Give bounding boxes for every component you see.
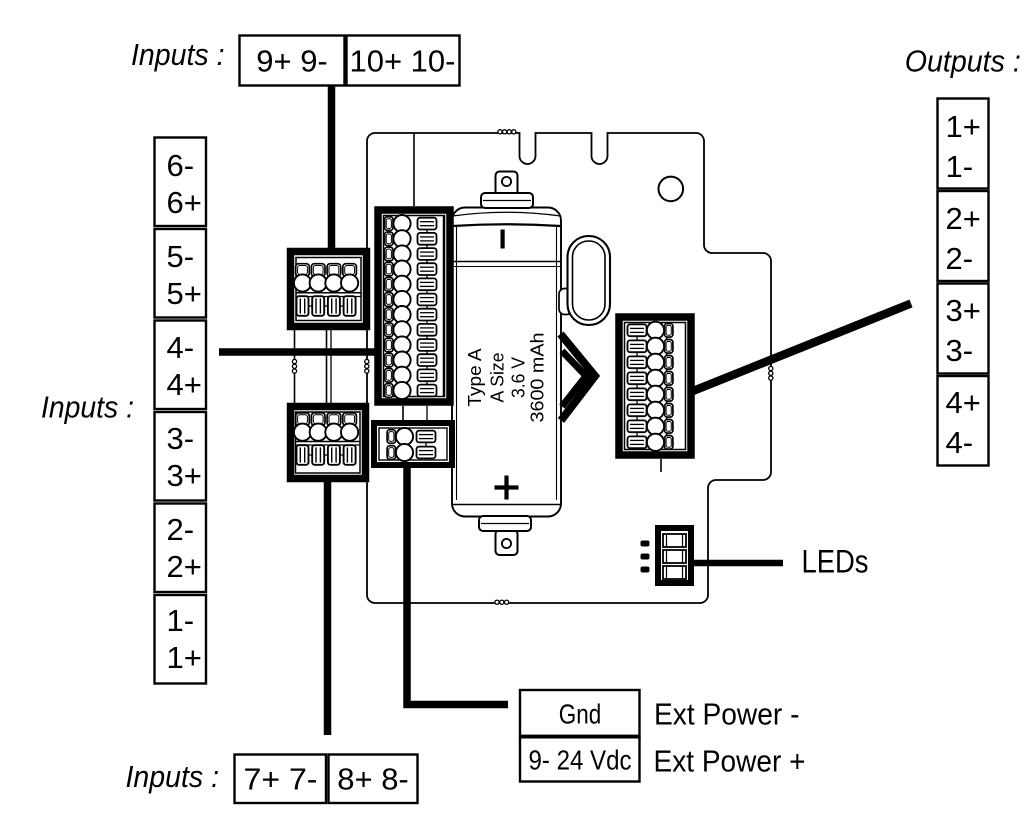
- battery top button: [481, 193, 533, 208]
- battery label text: [465, 333, 547, 423]
- svg-text:6-: 6-: [167, 148, 195, 183]
- svg-text:9- 24 Vdc: 9- 24 Vdc: [529, 745, 632, 776]
- terminal block TB4 right (outputs): [619, 317, 691, 455]
- contacts: [302, 454, 350, 456]
- battery minus mark: [501, 230, 505, 249]
- battery bottom tab: [496, 530, 518, 555]
- board edge break marks left: [365, 359, 369, 373]
- PCB board outline: [367, 133, 771, 603]
- svg-text:Inputs :: Inputs :: [41, 390, 134, 425]
- svg-text:10+ 10-: 10+ 10-: [349, 44, 455, 79]
- screws: [294, 413, 311, 441]
- svg-text:1+: 1+: [167, 640, 202, 675]
- svg-text:Ext Power -: Ext Power -: [654, 697, 800, 732]
- node box: 10+ 10-: [347, 36, 460, 86]
- stub below right terminal block: [660, 459, 662, 472]
- wire: small power block to Gnd box: [407, 464, 508, 705]
- svg-text:4-: 4-: [946, 425, 974, 460]
- contacts: [302, 305, 350, 307]
- svg-text:6+: 6+: [167, 185, 202, 220]
- battery plus mark: [495, 485, 519, 489]
- svg-text:3-: 3-: [167, 421, 195, 456]
- svg-text:Inputs :: Inputs :: [126, 759, 220, 794]
- contacts: [636, 326, 638, 446]
- wire: LED block to LEDs label: [694, 560, 783, 567]
- wire: lower-left terminal block to inputs 7/8 boxes: [324, 478, 332, 735]
- wire: right terminal block to outputs boxes: [693, 304, 911, 392]
- contacts: [425, 436, 427, 453]
- svg-text:5-: 5-: [167, 239, 195, 274]
- svg-text:3+: 3+: [946, 293, 981, 328]
- svg-text:Outputs :: Outputs :: [905, 44, 1021, 79]
- connector body stubs between main and small block: [402, 406, 404, 423]
- svg-text:4+: 4+: [167, 367, 202, 402]
- terminal block TB2 upper-left (inputs 9/10): [291, 252, 367, 327]
- wire: inputs 9/10 box to upper-left terminal block: [328, 86, 336, 254]
- svg-text:1-: 1-: [946, 149, 974, 184]
- svg-text:A Size: A Size: [487, 353, 507, 403]
- svg-text:1-: 1-: [167, 603, 195, 638]
- connector body stubs between left terminal blocks: [294, 330, 296, 403]
- terminal block TB5 small (external power): [374, 423, 452, 465]
- board edge break marks right: [769, 366, 773, 380]
- node boxes: inputs 1-6 column: [155, 138, 207, 684]
- svg-text:3600 mAh: 3600 mAh: [526, 333, 547, 423]
- svg-text:4+: 4+: [946, 385, 981, 420]
- svg-text:8+ 8-: 8+ 8-: [337, 761, 409, 796]
- svg-text:2+: 2+: [946, 201, 981, 236]
- terminal block TB3 lower-left (inputs 7/8): [291, 407, 366, 479]
- node box: 9+ 9-: [240, 36, 345, 86]
- node box: Gnd: [520, 690, 640, 736]
- svg-text:Gnd: Gnd: [559, 699, 602, 730]
- svg-text:4-: 4-: [167, 330, 195, 365]
- svg-text:9+ 9-: 9+ 9-: [256, 44, 328, 79]
- node box: 8+ 8-: [329, 755, 418, 804]
- break coil on stub: [292, 359, 296, 373]
- svg-text:LEDs: LEDs: [802, 544, 869, 580]
- svg-text:5+: 5+: [167, 276, 202, 311]
- battery top tab: [496, 172, 518, 196]
- svg-text:2+: 2+: [167, 549, 202, 584]
- contacts: [426, 220, 428, 394]
- terminal block TB1 main (inputs 1-6, left of battery): [378, 210, 450, 402]
- node box: 7+ 7-: [235, 755, 327, 804]
- board mounting hole: [659, 177, 684, 202]
- svg-text:2-: 2-: [167, 512, 195, 547]
- board edge break marks top: [498, 130, 516, 134]
- connector body stub above main terminal block: [413, 133, 415, 206]
- battery bottom cap: [479, 516, 531, 531]
- screws: [294, 264, 311, 292]
- battery clip chevron: [561, 334, 596, 421]
- svg-text:Inputs :: Inputs :: [131, 37, 225, 72]
- LED indicator block: [641, 528, 692, 583]
- svg-text:3+: 3+: [167, 458, 202, 493]
- wire: input 4 box to main terminal block: [219, 348, 378, 356]
- node boxes: outputs 1-4 column: [938, 99, 989, 466]
- svg-text:2-: 2-: [946, 241, 974, 276]
- svg-text:Ext Power +: Ext Power +: [654, 744, 806, 779]
- LED solder dots: [641, 541, 650, 573]
- screws: [387, 428, 413, 445]
- programming port oval: [559, 289, 572, 315]
- svg-text:7+ 7-: 7+ 7-: [244, 761, 318, 796]
- node box: 9- 24 Vdc: [520, 737, 640, 781]
- board edge break marks bottom: [495, 600, 509, 604]
- svg-text:1+: 1+: [946, 109, 981, 144]
- screws: [647, 322, 673, 339]
- svg-text:Type A: Type A: [465, 349, 485, 407]
- battery BT1 body: [452, 208, 561, 517]
- screws: [385, 215, 411, 232]
- svg-text:3-: 3-: [946, 333, 974, 368]
